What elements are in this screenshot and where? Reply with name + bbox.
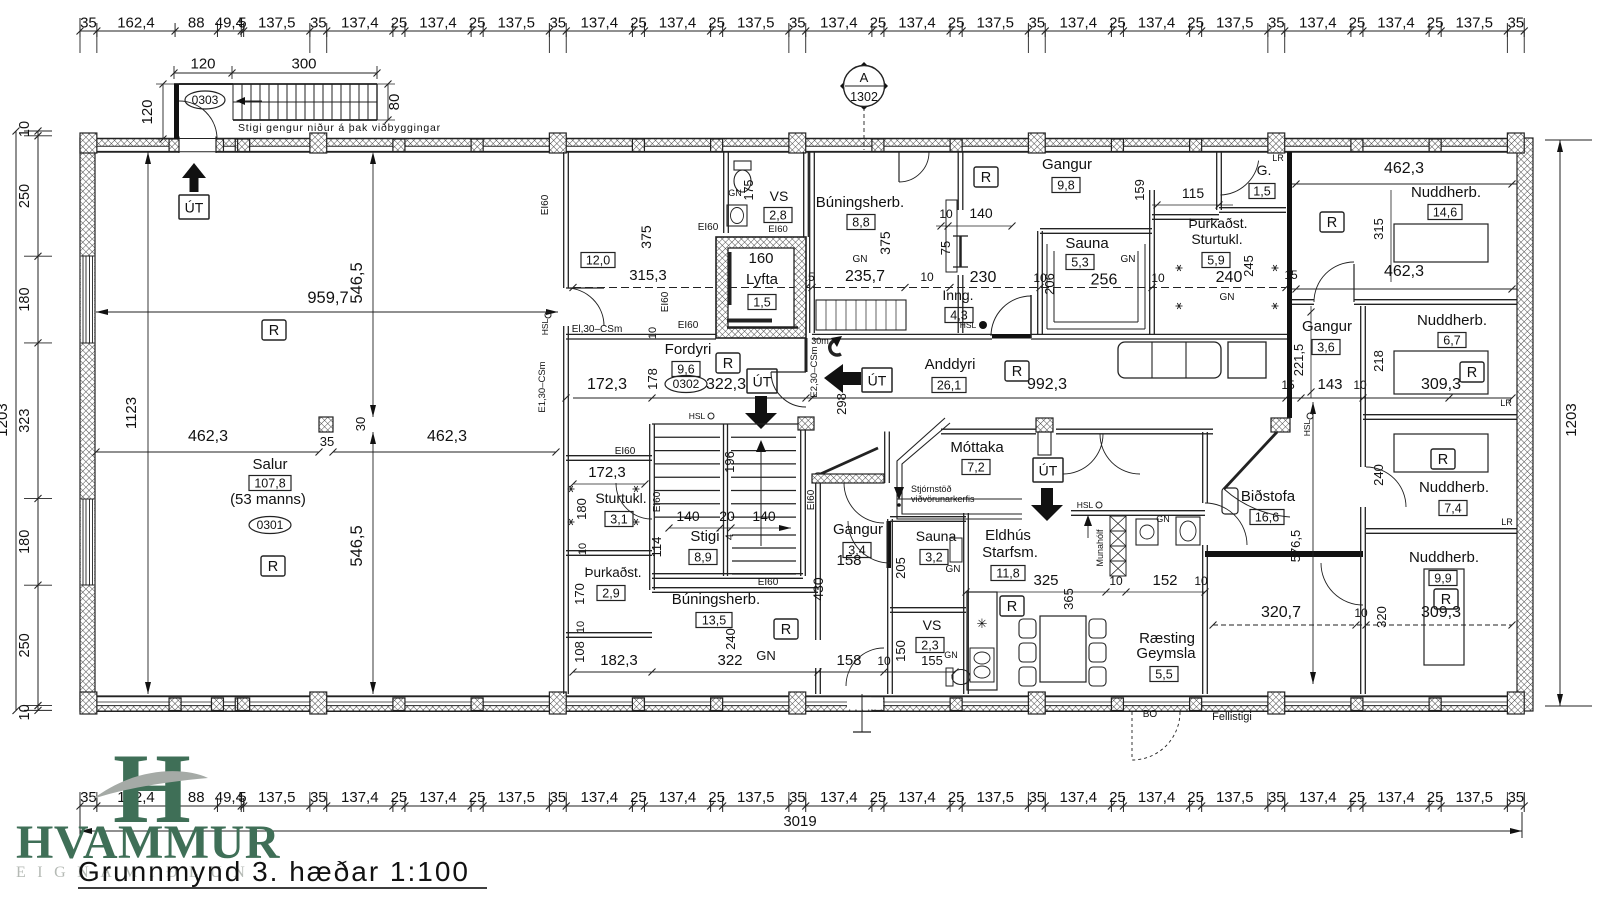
svg-text:235,7: 235,7 <box>845 268 885 285</box>
svg-text:Grunnmynd 3. hæðar 1:100: Grunnmynd 3. hæðar 1:100 <box>78 856 470 887</box>
svg-text:10: 10 <box>17 121 33 137</box>
svg-text:1203: 1203 <box>1563 403 1580 436</box>
svg-text:959,7: 959,7 <box>307 289 348 307</box>
svg-text:R: R <box>268 559 278 575</box>
svg-text:162,4: 162,4 <box>117 15 155 32</box>
svg-text:206: 206 <box>1042 273 1057 295</box>
svg-text:HSL: HSL <box>960 320 977 330</box>
svg-text:Móttaka: Móttaka <box>950 439 1004 456</box>
svg-text:25: 25 <box>708 789 725 806</box>
svg-text:180: 180 <box>17 287 33 311</box>
svg-text:Nuddherb.: Nuddherb. <box>1419 479 1489 496</box>
svg-text:35: 35 <box>549 15 566 32</box>
svg-text:LR: LR <box>1501 517 1513 527</box>
svg-text:35: 35 <box>789 15 806 32</box>
svg-text:256: 256 <box>1091 272 1118 289</box>
svg-text:10: 10 <box>577 543 589 555</box>
svg-text:137,5: 137,5 <box>497 15 535 32</box>
svg-text:250: 250 <box>17 633 33 657</box>
svg-text:175: 175 <box>742 180 756 201</box>
svg-text:25: 25 <box>1109 789 1126 806</box>
svg-text:12,0: 12,0 <box>586 253 610 267</box>
svg-text:0301: 0301 <box>257 518 284 532</box>
svg-text:3019: 3019 <box>783 813 816 830</box>
svg-text:10: 10 <box>920 270 934 284</box>
svg-text:30: 30 <box>353 417 368 431</box>
svg-text:EI60: EI60 <box>678 320 699 331</box>
svg-text:EI60: EI60 <box>660 291 671 312</box>
svg-text:114: 114 <box>649 537 664 558</box>
svg-text:VS: VS <box>923 617 942 633</box>
svg-text:35: 35 <box>1268 15 1285 32</box>
svg-text:245: 245 <box>1241 255 1256 277</box>
svg-text:137,5: 137,5 <box>737 789 775 806</box>
svg-text:2,8: 2,8 <box>769 208 786 222</box>
svg-text:9,6: 9,6 <box>677 362 694 376</box>
svg-text:25: 25 <box>630 15 647 32</box>
svg-text:ÚT: ÚT <box>868 373 887 389</box>
svg-text:25: 25 <box>1109 15 1126 32</box>
svg-text:1123: 1123 <box>123 397 140 429</box>
svg-text:320,7: 320,7 <box>1261 604 1301 621</box>
svg-text:180: 180 <box>574 498 589 520</box>
svg-text:10: 10 <box>939 207 953 221</box>
svg-text:R: R <box>781 622 791 638</box>
svg-text:E1,30–CSm: E1,30–CSm <box>537 361 548 412</box>
svg-text:120: 120 <box>139 99 156 124</box>
svg-text:137,4: 137,4 <box>1138 789 1176 806</box>
svg-text:GN: GN <box>853 254 868 265</box>
svg-text:GN: GN <box>944 650 958 660</box>
svg-text:322: 322 <box>717 652 742 669</box>
svg-text:546,5: 546,5 <box>348 262 366 303</box>
svg-text:HSL: HSL <box>1077 500 1094 510</box>
svg-text:6,7: 6,7 <box>1443 333 1460 347</box>
svg-text:25: 25 <box>469 789 486 806</box>
svg-text:ÚT: ÚT <box>185 200 204 216</box>
svg-text:0303: 0303 <box>192 93 219 107</box>
svg-text:GN: GN <box>728 188 742 198</box>
svg-text:5,3: 5,3 <box>1071 255 1088 269</box>
svg-text:137,4: 137,4 <box>1299 15 1337 32</box>
svg-text:8,8: 8,8 <box>852 215 869 229</box>
svg-text:5: 5 <box>238 789 246 806</box>
svg-text:180: 180 <box>17 530 33 554</box>
svg-text:Sauna: Sauna <box>1065 235 1109 252</box>
svg-text:35: 35 <box>1028 15 1045 32</box>
svg-text:143: 143 <box>1317 376 1342 393</box>
svg-text:Fellistigi: Fellistigi <box>1212 711 1252 723</box>
svg-text:137,4: 137,4 <box>820 789 858 806</box>
svg-text:ÚT: ÚT <box>753 374 772 390</box>
svg-text:R: R <box>1327 215 1337 231</box>
svg-text:HSL: HSL <box>540 318 550 335</box>
svg-text:Fordyri: Fordyri <box>665 341 712 358</box>
svg-text:25: 25 <box>391 15 408 32</box>
svg-text:Búningsherb.: Búningsherb. <box>816 194 904 211</box>
svg-text:25: 25 <box>870 789 887 806</box>
svg-text:G.: G. <box>1257 162 1272 178</box>
svg-text:10: 10 <box>1151 271 1165 285</box>
svg-text:137,4: 137,4 <box>1060 15 1098 32</box>
svg-text:137,4: 137,4 <box>581 789 619 806</box>
svg-text:EI60: EI60 <box>615 446 636 457</box>
svg-text:ÚT: ÚT <box>1039 463 1058 479</box>
svg-text:430: 430 <box>810 577 826 601</box>
svg-text:Inng.: Inng. <box>942 287 973 303</box>
svg-text:Stigi: Stigi <box>690 528 719 545</box>
svg-text:Þurkaðst.: Þurkaðst. <box>584 565 641 580</box>
svg-text:300: 300 <box>291 56 316 73</box>
svg-text:137,4: 137,4 <box>1377 789 1415 806</box>
svg-text:375: 375 <box>638 225 654 249</box>
svg-text:Geymsla: Geymsla <box>1136 645 1196 662</box>
svg-text:25: 25 <box>1427 15 1444 32</box>
svg-text:R: R <box>1438 452 1448 468</box>
svg-text:R: R <box>1007 599 1017 615</box>
svg-text:10: 10 <box>1194 574 1208 588</box>
svg-text:137,4: 137,4 <box>898 15 936 32</box>
svg-text:137,5: 137,5 <box>258 15 296 32</box>
svg-text:Starfsm.: Starfsm. <box>982 544 1038 561</box>
svg-text:Gangur: Gangur <box>1042 156 1092 173</box>
svg-text:Biðstofa: Biðstofa <box>1241 488 1296 505</box>
svg-text:172,3: 172,3 <box>587 376 627 393</box>
svg-text:4: 4 <box>724 534 736 540</box>
svg-text:75: 75 <box>938 241 953 255</box>
svg-text:170: 170 <box>572 583 587 605</box>
svg-text:HSL: HSL <box>689 411 706 421</box>
svg-text:218: 218 <box>1371 350 1386 372</box>
svg-text:10: 10 <box>877 654 891 668</box>
svg-text:221,5: 221,5 <box>1291 344 1306 377</box>
svg-text:GN: GN <box>1121 254 1136 265</box>
svg-text:1203: 1203 <box>0 403 11 436</box>
svg-text:25: 25 <box>469 15 486 32</box>
svg-text:EI60: EI60 <box>768 224 788 235</box>
svg-text:Nuddherb.: Nuddherb. <box>1411 184 1481 201</box>
svg-text:137,4: 137,4 <box>1138 15 1176 32</box>
svg-text:BO: BO <box>1143 709 1158 720</box>
svg-text:Lyfta: Lyfta <box>746 271 779 288</box>
svg-text:LR: LR <box>1500 398 1512 408</box>
svg-text:35: 35 <box>1268 789 1285 806</box>
svg-text:2,3: 2,3 <box>921 638 938 652</box>
svg-text:140: 140 <box>969 205 993 221</box>
svg-text:462,3: 462,3 <box>427 428 467 445</box>
svg-text:322,3: 322,3 <box>706 376 746 393</box>
svg-text:35: 35 <box>1028 789 1045 806</box>
svg-text:R: R <box>1441 592 1451 608</box>
svg-text:25: 25 <box>391 789 408 806</box>
svg-text:137,4: 137,4 <box>1299 789 1337 806</box>
svg-text:R: R <box>723 356 733 372</box>
svg-text:137,4: 137,4 <box>581 15 619 32</box>
svg-text:LR: LR <box>1272 153 1284 163</box>
svg-text:240: 240 <box>1216 269 1243 286</box>
svg-text:182,3: 182,3 <box>600 652 638 669</box>
svg-text:35: 35 <box>320 434 334 449</box>
svg-text:25: 25 <box>630 789 647 806</box>
svg-text:3,6: 3,6 <box>1317 340 1334 354</box>
svg-text:R: R <box>981 170 991 186</box>
svg-text:Gangur: Gangur <box>1302 318 1352 335</box>
svg-text:25: 25 <box>1427 789 1444 806</box>
svg-text:Eldhús: Eldhús <box>985 527 1031 544</box>
svg-text:R: R <box>1012 364 1022 380</box>
svg-text:137,4: 137,4 <box>341 15 379 32</box>
svg-text:462,3: 462,3 <box>188 428 228 445</box>
svg-text:325: 325 <box>1033 572 1058 589</box>
svg-text:10: 10 <box>575 621 587 633</box>
svg-text:35: 35 <box>310 15 327 32</box>
svg-text:8,9: 8,9 <box>694 550 711 564</box>
svg-text:80: 80 <box>386 94 403 111</box>
svg-text:315: 315 <box>1371 218 1386 240</box>
svg-text:✳: ✳ <box>977 616 988 631</box>
svg-text:137,4: 137,4 <box>659 15 697 32</box>
svg-text:GN: GN <box>1156 514 1170 524</box>
svg-text:178: 178 <box>645 368 660 390</box>
svg-text:137,5: 137,5 <box>1455 15 1493 32</box>
svg-text:Búningsherb.: Búningsherb. <box>672 591 760 608</box>
svg-text:140: 140 <box>676 508 700 524</box>
svg-text:EI60: EI60 <box>540 194 551 215</box>
svg-text:VS: VS <box>770 188 789 204</box>
svg-text:115: 115 <box>1182 185 1205 201</box>
svg-text:158: 158 <box>836 652 861 669</box>
svg-text:EI60: EI60 <box>758 577 779 588</box>
svg-text:250: 250 <box>17 184 33 208</box>
svg-text:30m: 30m <box>811 336 829 346</box>
svg-text:205: 205 <box>893 557 908 579</box>
svg-text:R: R <box>269 323 279 339</box>
svg-text:3,2: 3,2 <box>925 550 942 564</box>
svg-text:25: 25 <box>1187 789 1204 806</box>
svg-text:137,5: 137,5 <box>737 15 775 32</box>
svg-text:137,4: 137,4 <box>419 15 457 32</box>
svg-text:140: 140 <box>752 508 776 524</box>
svg-text:EI60: EI60 <box>698 222 719 233</box>
svg-text:Nuddherb.: Nuddherb. <box>1417 312 1487 329</box>
svg-text:315,3: 315,3 <box>629 267 667 284</box>
svg-text:35: 35 <box>1507 789 1524 806</box>
svg-text:Sturtukl.: Sturtukl. <box>595 490 646 506</box>
svg-text:Gangur: Gangur <box>833 521 883 538</box>
svg-text:1,5: 1,5 <box>1253 184 1270 198</box>
svg-text:120: 120 <box>190 56 215 73</box>
svg-text:7,2: 7,2 <box>967 460 984 474</box>
svg-text:25: 25 <box>870 15 887 32</box>
svg-text:25: 25 <box>708 15 725 32</box>
svg-text:26,1: 26,1 <box>937 378 961 392</box>
svg-text:137,5: 137,5 <box>497 789 535 806</box>
svg-text:320: 320 <box>1374 606 1389 628</box>
svg-text:Salur: Salur <box>252 456 287 473</box>
svg-text:546,5: 546,5 <box>348 525 366 566</box>
svg-text:108: 108 <box>572 641 587 663</box>
svg-text:11,8: 11,8 <box>996 566 1019 580</box>
svg-text:137,4: 137,4 <box>1377 15 1415 32</box>
svg-text:E2,30–CSm: E2,30–CSm <box>809 346 820 397</box>
svg-text:Þurkaðst.: Þurkaðst. <box>1188 215 1247 231</box>
svg-text:137,4: 137,4 <box>1060 789 1098 806</box>
svg-text:137,4: 137,4 <box>341 789 379 806</box>
svg-text:9,8: 9,8 <box>1057 178 1074 192</box>
svg-text:992,3: 992,3 <box>1027 376 1067 393</box>
svg-text:137,4: 137,4 <box>419 789 457 806</box>
svg-text:25: 25 <box>1187 15 1204 32</box>
svg-text:88: 88 <box>188 15 205 32</box>
svg-text:137,4: 137,4 <box>659 789 697 806</box>
svg-text:(53 manns): (53 manns) <box>230 491 306 508</box>
svg-text:9,9: 9,9 <box>1434 571 1451 585</box>
svg-text:1302: 1302 <box>850 90 878 104</box>
svg-text:GN: GN <box>756 648 776 663</box>
svg-text:137,4: 137,4 <box>898 789 936 806</box>
svg-text:152: 152 <box>1152 572 1177 589</box>
svg-text:25: 25 <box>948 789 965 806</box>
svg-text:El,30–CSm: El,30–CSm <box>572 324 623 335</box>
svg-text:A: A <box>860 70 869 85</box>
svg-text:172,3: 172,3 <box>588 464 626 481</box>
svg-text:309,3: 309,3 <box>1421 376 1461 393</box>
svg-text:0302: 0302 <box>673 377 700 391</box>
svg-text:Anddyri: Anddyri <box>925 356 976 373</box>
svg-text:GN: GN <box>1220 292 1235 303</box>
svg-text:5: 5 <box>238 15 246 32</box>
svg-text:35: 35 <box>549 789 566 806</box>
svg-text:35: 35 <box>80 15 97 32</box>
svg-text:14,6: 14,6 <box>1433 205 1457 219</box>
svg-text:158: 158 <box>836 552 861 569</box>
svg-text:576,5: 576,5 <box>1288 530 1303 563</box>
svg-text:375: 375 <box>877 231 893 255</box>
svg-text:240: 240 <box>723 628 738 650</box>
svg-text:10: 10 <box>17 704 33 720</box>
svg-text:35: 35 <box>80 789 97 806</box>
svg-text:137,5: 137,5 <box>1455 789 1493 806</box>
svg-text:16,6: 16,6 <box>1255 510 1279 524</box>
svg-text:159: 159 <box>1132 179 1147 201</box>
svg-text:2,9: 2,9 <box>602 586 619 600</box>
svg-text:GN: GN <box>946 564 961 575</box>
svg-text:25: 25 <box>948 15 965 32</box>
svg-text:Nuddherb.: Nuddherb. <box>1409 549 1479 566</box>
svg-text:196: 196 <box>722 451 737 473</box>
svg-text:1,5: 1,5 <box>753 295 770 309</box>
svg-text:137,5: 137,5 <box>976 15 1014 32</box>
svg-text:EI60: EI60 <box>652 491 663 512</box>
svg-text:20: 20 <box>719 508 735 524</box>
svg-text:5,9: 5,9 <box>1207 253 1224 267</box>
svg-text:25: 25 <box>1349 15 1366 32</box>
svg-text:35: 35 <box>789 789 806 806</box>
svg-text:5,5: 5,5 <box>1155 667 1172 681</box>
svg-text:7,4: 7,4 <box>1444 501 1461 515</box>
svg-text:35: 35 <box>1507 15 1524 32</box>
svg-text:Sturtukl.: Sturtukl. <box>1191 231 1242 247</box>
svg-text:462,3: 462,3 <box>1384 160 1424 177</box>
svg-text:10: 10 <box>647 327 659 339</box>
svg-text:230: 230 <box>970 269 997 286</box>
svg-text:Munahólf: Munahólf <box>1095 529 1105 567</box>
svg-text:155: 155 <box>921 653 943 668</box>
svg-text:25: 25 <box>1349 789 1366 806</box>
svg-text:3,1: 3,1 <box>610 512 627 526</box>
svg-text:viðvörunarkerfis: viðvörunarkerfis <box>911 494 975 504</box>
svg-text:R: R <box>1467 365 1477 381</box>
svg-text:HSL: HSL <box>1302 419 1312 436</box>
svg-text:365: 365 <box>1061 588 1076 610</box>
svg-text:137,5: 137,5 <box>258 789 296 806</box>
svg-text:160: 160 <box>748 250 773 267</box>
svg-text:150: 150 <box>893 640 908 662</box>
svg-text:35: 35 <box>310 789 327 806</box>
svg-text:Stigi gengur niður á þak viðby: Stigi gengur niður á þak viðbyggingar <box>238 122 441 134</box>
svg-text:107,8: 107,8 <box>254 476 285 490</box>
svg-text:137,5: 137,5 <box>1216 15 1254 32</box>
svg-text:137,5: 137,5 <box>1216 789 1254 806</box>
svg-text:298: 298 <box>834 393 849 415</box>
svg-text:137,4: 137,4 <box>820 15 858 32</box>
svg-text:323: 323 <box>17 409 33 433</box>
svg-text:13,5: 13,5 <box>702 613 726 627</box>
svg-text:462,3: 462,3 <box>1384 263 1424 280</box>
svg-text:137,5: 137,5 <box>976 789 1014 806</box>
svg-text:Stjórnstöð: Stjórnstöð <box>911 484 952 494</box>
